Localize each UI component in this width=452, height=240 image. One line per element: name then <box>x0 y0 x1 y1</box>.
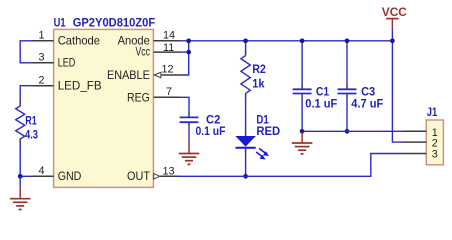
svg-text:Cathode: Cathode <box>58 35 100 48</box>
node junction pin14 rail <box>186 38 191 43</box>
svg-text:4.7 uF: 4.7 uF <box>351 97 383 111</box>
ground (C2) <box>179 142 200 165</box>
svg-text:11: 11 <box>163 42 174 54</box>
ground (R1/pin4) <box>10 176 31 209</box>
svg-text:2: 2 <box>38 74 44 86</box>
svg-text:3: 3 <box>432 148 438 160</box>
svg-text:REG: REG <box>127 91 150 104</box>
svg-text:U1: U1 <box>54 16 66 30</box>
U1 pin 12 ENABLE input arrow <box>107 64 181 82</box>
svg-text:VCC: VCC <box>382 5 407 19</box>
svg-text:LED_FB: LED_FB <box>58 79 102 92</box>
U1 pin 13 OUT output arrow <box>127 165 179 182</box>
wire pin1-pin3 loop left <box>20 41 31 63</box>
svg-text:0.1 uF: 0.1 uF <box>305 97 337 111</box>
svg-text:7: 7 <box>166 86 172 98</box>
U1 pin 1 Cathode <box>32 30 101 48</box>
wire pin11 to junction column <box>179 51 189 53</box>
svg-text:12: 12 <box>162 64 174 76</box>
U1 pin 14 Anode <box>118 30 179 48</box>
LED D1 <box>235 113 280 160</box>
resistor R2 <box>241 41 266 99</box>
wire R2 to D1 <box>245 99 247 131</box>
wire R1 bottom to GND node <box>19 145 21 177</box>
svg-text:R2: R2 <box>252 62 266 76</box>
J1 pin 2 <box>404 138 438 150</box>
svg-text:1k: 1k <box>252 77 265 91</box>
wire D1 to OUT line <box>245 154 247 176</box>
wire VCC top rail <box>179 40 392 42</box>
svg-text:4.3: 4.3 <box>25 128 38 142</box>
J1 pin 3 <box>404 148 438 160</box>
svg-text:LED: LED <box>58 57 76 70</box>
wire pin2 to R1 top <box>20 86 31 101</box>
ground (C1/C3 rail) <box>292 132 313 154</box>
IC U1 body <box>54 29 154 187</box>
wire ground rail to J1 pin1 <box>302 130 403 132</box>
svg-text:GP2Y0D810Z0F: GP2Y0D810Z0F <box>73 16 156 30</box>
svg-text:0.1 uF: 0.1 uF <box>196 124 226 138</box>
svg-text:Vcc: Vcc <box>136 46 151 59</box>
J1 pin 1 <box>404 127 438 139</box>
svg-text:3: 3 <box>38 52 44 64</box>
svg-text:13: 13 <box>163 165 175 177</box>
node junction C3 bottom <box>345 129 350 134</box>
node junction C1 bottom / ground tap <box>300 129 305 134</box>
wire OUT run to J1 riser <box>179 154 404 177</box>
U1 pin 2 LED_FB <box>32 74 102 92</box>
node junction pin11 <box>186 50 191 55</box>
capacitor C2 <box>180 113 226 139</box>
power VCC symbol <box>382 5 407 30</box>
svg-text:R1: R1 <box>25 113 37 127</box>
capacitor C3 <box>338 41 384 132</box>
wire pin7 to C2 <box>179 97 189 113</box>
wire VCC down to J1 pin2 <box>392 30 403 142</box>
node junction C3 top <box>345 38 350 43</box>
light arrows <box>259 148 266 153</box>
capacitor C1 <box>293 41 338 132</box>
svg-text:14: 14 <box>163 30 175 42</box>
node junction C1 top <box>300 38 305 43</box>
connector J1 body <box>426 120 443 165</box>
node junction VCC rail <box>390 38 395 43</box>
svg-text:1: 1 <box>38 30 44 42</box>
wire pin12 riser joining pin11/pin14 <box>181 41 189 75</box>
svg-text:RED: RED <box>256 124 280 138</box>
svg-text:ENABLE: ENABLE <box>107 69 150 82</box>
U1 pin 3 LED <box>32 52 76 70</box>
node junction pin4/R1/ground <box>18 174 23 179</box>
U1 pin 7 REG <box>127 86 179 104</box>
wire C2 to ground <box>188 127 190 142</box>
svg-text:4: 4 <box>38 165 44 177</box>
wire pin4 GND <box>20 175 31 177</box>
U1 pin 4 GND <box>32 165 82 183</box>
svg-text:OUT: OUT <box>127 170 150 183</box>
resistor R1 <box>16 100 39 145</box>
svg-text:J1: J1 <box>427 105 438 119</box>
svg-text:GND: GND <box>58 170 82 183</box>
U1 pin 11 Vcc <box>136 42 180 59</box>
node junction D1/OUT <box>243 174 248 179</box>
node junction R2 top rail <box>243 38 248 43</box>
